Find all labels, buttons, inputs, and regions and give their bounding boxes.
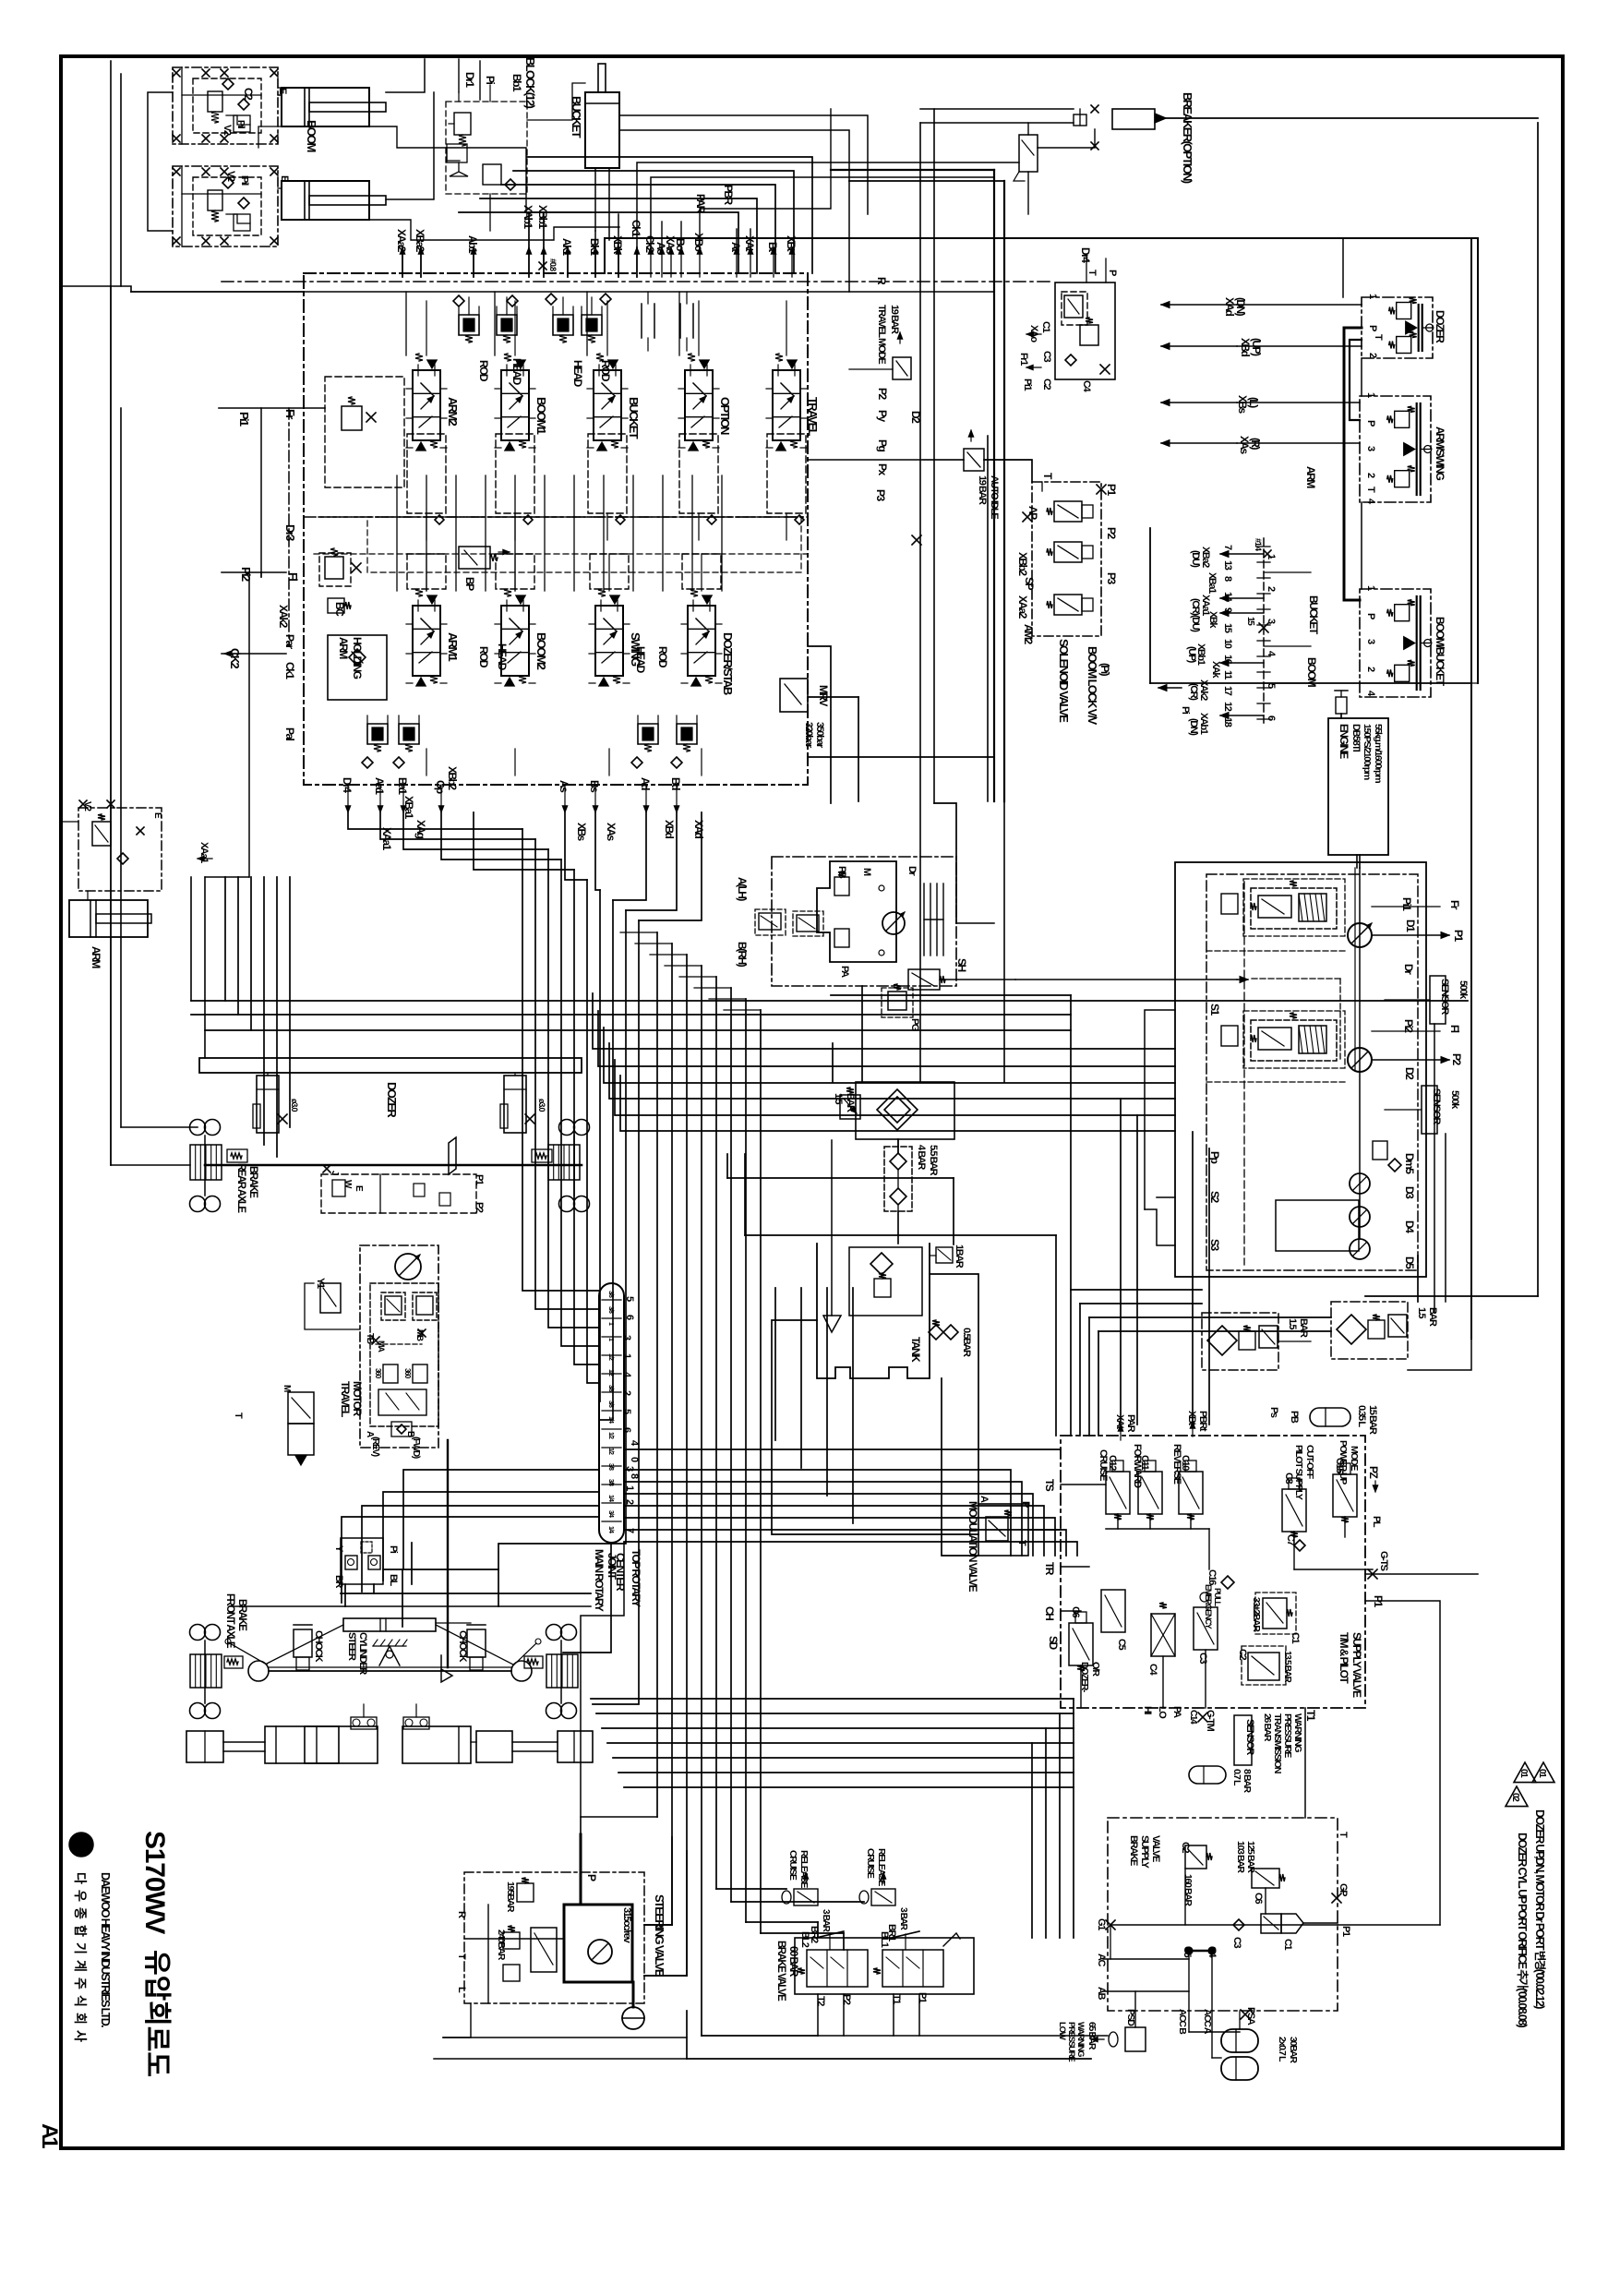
svg-text:12: 12 — [1222, 702, 1233, 712]
svg-text:3/4: 3/4 — [607, 1510, 614, 1518]
svg-text:G-TS: G-TS — [1378, 1551, 1389, 1571]
svg-text:GP: GP — [1338, 1883, 1349, 1896]
svg-text:CRUISE: CRUISE — [787, 1850, 798, 1881]
svg-text:19 BAR: 19 BAR — [977, 475, 988, 505]
svg-text:5.5 BAR: 5.5 BAR — [928, 1145, 939, 1176]
svg-text:IPil: IPil — [239, 175, 249, 186]
svg-text:XBb2: XBb2 — [446, 766, 459, 790]
svg-text:Y1: Y1 — [315, 1278, 326, 1289]
svg-text:Dr1: Dr1 — [463, 72, 476, 88]
svg-text:0.7 L: 0.7 L — [1231, 1769, 1242, 1786]
svg-text:T1: T1 — [891, 1994, 902, 2004]
svg-text:BLOCK(12): BLOCK(12) — [523, 57, 537, 108]
svg-text:D3: D3 — [1403, 1186, 1416, 1199]
svg-text:PRESSURE: PRESSURE — [1282, 1713, 1293, 1758]
svg-text:C2: C2 — [1180, 1842, 1191, 1854]
svg-text:320bar: 320bar — [803, 722, 814, 749]
svg-text:XAd: XAd — [1223, 297, 1236, 317]
svg-text:Dm5: Dm5 — [1403, 1153, 1416, 1174]
svg-text:1/4: 1/4 — [607, 1526, 614, 1533]
svg-text:S3: S3 — [1208, 1239, 1221, 1251]
svg-text:3 BAR: 3 BAR — [898, 1907, 908, 1931]
svg-text:TRAVEL MODE: TRAVEL MODE — [876, 305, 887, 364]
svg-text:CYLINDER: CYLINDER — [357, 1632, 368, 1675]
svg-text:XBs: XBs — [575, 823, 588, 842]
svg-text:Dr4: Dr4 — [341, 777, 354, 793]
svg-text:60 BAR: 60 BAR — [787, 1946, 798, 1977]
svg-text:BOOM: BOOM — [305, 120, 318, 152]
svg-text:P2: P2 — [841, 1994, 852, 2005]
svg-text:기: 기 — [73, 1942, 88, 1953]
svg-text:15 BAR: 15 BAR — [1367, 1405, 1378, 1435]
svg-text:LO: LO — [1157, 1706, 1168, 1719]
svg-text:Ck1: Ck1 — [283, 662, 296, 679]
svg-text:A(LH): A(LH) — [736, 877, 749, 901]
svg-text:REAR AXLE: REAR AXLE — [235, 1163, 246, 1213]
svg-text:195BAR: 195BAR — [505, 1881, 516, 1913]
svg-text:PILOT SUPPLY: PILOT SUPPLY — [1293, 1445, 1304, 1500]
svg-text:AB: AB — [1096, 1987, 1107, 2001]
svg-text:BOOM2: BOOM2 — [534, 632, 548, 670]
svg-text:Pp: Pp — [1208, 1151, 1221, 1163]
svg-text:P1: P1 — [1452, 930, 1465, 942]
svg-text:FRONT AXLE: FRONT AXLE — [224, 1593, 235, 1649]
svg-text:CUT-OFF: CUT-OFF — [1304, 1445, 1315, 1480]
svg-text:G-TM: G-TM — [1205, 1710, 1216, 1732]
svg-text:Py: Py — [876, 410, 889, 422]
svg-text:T1: T1 — [1304, 1710, 1317, 1722]
svg-text:P1: P1 — [474, 1174, 485, 1185]
svg-text:C6: C6 — [1070, 1606, 1081, 1618]
svg-text:D4: D4 — [1403, 1220, 1416, 1233]
svg-text:BUCKET: BUCKET — [1307, 595, 1320, 635]
svg-text:P2: P2 — [1450, 1053, 1463, 1065]
svg-text:HI: HI — [1142, 1706, 1153, 1715]
svg-text:다: 다 — [73, 1872, 88, 1884]
svg-text:BRAKE: BRAKE — [1128, 1835, 1139, 1866]
svg-text:STEER: STEER — [346, 1632, 357, 1661]
svg-text:MRV: MRV — [817, 685, 830, 706]
svg-text:(FWD): (FWD) — [411, 1437, 421, 1459]
svg-text:PBRt: PBRt — [1197, 1411, 1208, 1432]
svg-text:사: 사 — [73, 2030, 88, 2042]
svg-text:MODULATION VALVE: MODULATION VALVE — [966, 1501, 979, 1593]
svg-text:S170WV: S170WV — [139, 1831, 170, 1934]
svg-text:As: As — [558, 780, 570, 793]
svg-text:BRAKE: BRAKE — [236, 1599, 247, 1631]
svg-text:13: 13 — [1222, 560, 1233, 571]
svg-text:S1: S1 — [1208, 1004, 1221, 1016]
svg-text:PZ: PZ — [1367, 1466, 1380, 1478]
svg-text:1/2: 1/2 — [607, 1448, 614, 1455]
svg-text:ø3.0: ø3.0 — [537, 1099, 546, 1112]
svg-text:10: 10 — [1222, 639, 1233, 649]
svg-text:XBa1: XBa1 — [1206, 572, 1218, 594]
svg-text:P3: P3 — [1105, 572, 1118, 584]
svg-text:B(RH): B(RH) — [736, 942, 749, 968]
svg-text:Fr1: Fr1 — [1018, 353, 1029, 366]
svg-text:BUCKET: BUCKET — [570, 96, 583, 138]
svg-text:BUCKET: BUCKET — [627, 397, 641, 439]
svg-text:XAk: XAk — [1210, 661, 1221, 679]
svg-text:C3: C3 — [1231, 1937, 1242, 1949]
svg-text:C3: C3 — [1197, 1653, 1208, 1665]
svg-text:XBd: XBd — [663, 820, 676, 839]
svg-text:MOTOR: MOTOR — [351, 1381, 364, 1417]
svg-text:P1: P1 — [1105, 484, 1118, 496]
svg-text:P3: P3 — [874, 489, 887, 501]
svg-text:C16: C16 — [1206, 1569, 1218, 1585]
svg-text:0.5BAR: 0.5BAR — [961, 1328, 972, 1357]
svg-text:26 BAR: 26 BAR — [1262, 1713, 1273, 1742]
svg-text:XAb1: XAb1 — [522, 205, 534, 229]
svg-text:350bar: 350bar — [814, 722, 825, 749]
svg-text:CRUISE: CRUISE — [1098, 1449, 1109, 1481]
svg-text:BOOM/BUCKET: BOOM/BUCKET — [1434, 617, 1446, 687]
svg-text:(CR): (CR) — [1190, 598, 1201, 616]
svg-text:SUPPLY VALVE: SUPPLY VALVE — [1350, 1632, 1363, 1698]
svg-text:DAEWOO HEAVY INDUSTRIES LTD.: DAEWOO HEAVY INDUSTRIES LTD. — [99, 1872, 112, 2027]
svg-text:3/8: 3/8 — [607, 1463, 614, 1471]
svg-text:Ad: Ad — [639, 777, 652, 790]
svg-text:BAR: BAR — [845, 1093, 856, 1112]
svg-text:Pi: Pi — [484, 76, 497, 84]
svg-text:#0.8: #0.8 — [548, 258, 558, 271]
svg-text:J: J — [330, 1171, 340, 1175]
svg-text:(DN): (DN) — [1188, 718, 1199, 736]
svg-text:SD: SD — [1047, 1636, 1060, 1650]
svg-text:Gp: Gp — [434, 780, 447, 794]
svg-text:SP: SP — [1023, 577, 1036, 590]
svg-text:RELEASE: RELEASE — [798, 1850, 810, 1888]
svg-text:ENGINE: ENGINE — [1338, 724, 1350, 759]
svg-text:360: 360 — [374, 1368, 382, 1379]
svg-text:TOP ROTARY: TOP ROTARY — [630, 1549, 642, 1607]
svg-text:PBR: PBR — [722, 185, 735, 206]
svg-text:XBs: XBs — [1236, 395, 1249, 415]
svg-text:BOOM LOCK V/V: BOOM LOCK V/V — [1086, 646, 1099, 725]
svg-text:TANK: TANK — [909, 1337, 922, 1363]
svg-text:BL: BL — [388, 1574, 399, 1587]
svg-text:A1: A1 — [37, 2123, 62, 2148]
svg-text:1.5: 1.5 — [1416, 1307, 1427, 1318]
svg-text:D1: D1 — [1404, 920, 1417, 932]
svg-text:1BAR: 1BAR — [954, 1244, 965, 1268]
svg-text:PSD: PSD — [1125, 2009, 1136, 2026]
svg-text:XAs: XAs — [1238, 436, 1251, 455]
svg-text:TS: TS — [1043, 1479, 1056, 1492]
svg-text:3 BAR: 3 BAR — [821, 1909, 831, 1933]
svg-text:500k: 500k — [1449, 1090, 1460, 1110]
svg-text:P2: P2 — [1105, 527, 1118, 539]
svg-text:SENSOR: SENSOR — [1439, 979, 1450, 1015]
svg-text:ROD: ROD — [477, 646, 490, 668]
svg-text:XBd: XBd — [1239, 338, 1252, 357]
svg-text:P2: P2 — [474, 1202, 485, 1213]
svg-text:VALVE: VALVE — [1150, 1835, 1161, 1862]
svg-text:ACC A: ACC A — [1202, 2009, 1213, 2035]
svg-text:103 BAR: 103 BAR — [1235, 1841, 1246, 1873]
svg-text:Pi1: Pi1 — [1022, 379, 1033, 391]
svg-text:종: 종 — [73, 1907, 88, 1919]
svg-text:HEAD: HEAD — [510, 358, 523, 386]
svg-text:BAR: BAR — [1427, 1307, 1438, 1327]
svg-text:DOZER/STAB: DOZER/STAB — [721, 632, 735, 695]
svg-text:Fr: Fr — [283, 409, 297, 419]
svg-text:160 BAR: 160 BAR — [1182, 1874, 1194, 1906]
svg-text:WARNING: WARNING — [1075, 2022, 1086, 2057]
svg-text:55kg.m/1600rpm: 55kg.m/1600rpm — [1373, 724, 1384, 783]
svg-text:BREAKER(OPTION): BREAKER(OPTION) — [1181, 92, 1194, 184]
svg-text:C8: C8 — [1283, 1473, 1294, 1485]
svg-text:우: 우 — [73, 1890, 88, 1902]
svg-text:LOW: LOW — [1057, 2022, 1067, 2040]
svg-text:Pal: Pal — [283, 727, 296, 741]
svg-text:17: 17 — [1222, 686, 1233, 696]
svg-text:AC: AC — [1096, 1953, 1107, 1967]
svg-text:Dr4: Dr4 — [1079, 247, 1092, 263]
svg-text:SUPPLY: SUPPLY — [1139, 1835, 1150, 1869]
svg-text:PA: PA — [839, 966, 850, 978]
svg-text:BRAKE: BRAKE — [247, 1166, 258, 1198]
svg-text:ARM/SWING: ARM/SWING — [1434, 427, 1446, 481]
svg-text:BL1: BL1 — [879, 1931, 890, 1948]
svg-text:Pi2: Pi2 — [239, 567, 253, 582]
svg-text:Pi1: Pi1 — [1400, 897, 1413, 911]
svg-text:Bb1: Bb1 — [510, 74, 523, 92]
svg-text:(CR): (CR) — [1188, 683, 1199, 701]
svg-text:0.35 L: 0.35 L — [1356, 1405, 1367, 1427]
svg-text:500k: 500k — [1458, 980, 1469, 1000]
svg-text:AM2: AM2 — [1022, 624, 1035, 645]
svg-text:ROD: ROD — [477, 360, 490, 382]
svg-text:PA: PA — [1171, 1706, 1182, 1718]
svg-text:회: 회 — [73, 2013, 88, 2024]
svg-text:V2: V2 — [222, 125, 233, 136]
svg-text:Ps: Ps — [1268, 1407, 1279, 1418]
svg-text:#1.4: #1.4 — [1254, 538, 1263, 551]
svg-text:XAa2: XAa2 — [1016, 595, 1029, 619]
svg-text:CHOCK: CHOCK — [457, 1630, 468, 1663]
svg-text:C2: C2 — [242, 88, 255, 101]
svg-text:Ck1: Ck1 — [630, 220, 642, 237]
svg-text:M: M — [282, 1385, 292, 1392]
svg-text:ROD: ROD — [656, 646, 669, 668]
svg-text:19 BAR: 19 BAR — [889, 305, 900, 334]
svg-text:TR: TR — [1043, 1562, 1056, 1576]
svg-text:DOZER UP,DN, MOTOR Dr PORT 변경(: DOZER UP,DN, MOTOR Dr PORT 변경('00.02.12) — [1533, 1809, 1547, 2009]
svg-text:C6: C6 — [1253, 1893, 1264, 1905]
svg-text:PL: PL — [1371, 1516, 1382, 1528]
svg-text:Ba1: Ba1 — [396, 777, 409, 795]
svg-text:BOOM1: BOOM1 — [534, 397, 548, 435]
svg-text:13.5 BAR: 13.5 BAR — [1282, 1651, 1292, 1684]
svg-text:BP: BP — [463, 577, 476, 591]
svg-text:C2: C2 — [1041, 379, 1052, 391]
svg-text:C2: C2 — [1237, 1649, 1248, 1661]
svg-text:1/4: 1/4 — [607, 1495, 614, 1502]
svg-text:BRAKE VALVE: BRAKE VALVE — [775, 1941, 786, 2001]
svg-text:Bd: Bd — [669, 777, 682, 790]
svg-text:MAIN ROTARY: MAIN ROTARY — [593, 1549, 606, 1612]
svg-text:360: 360 — [403, 1368, 412, 1379]
svg-text:15: 15 — [1222, 623, 1233, 633]
svg-text:CRUISE: CRUISE — [865, 1848, 876, 1879]
svg-text:합: 합 — [73, 1925, 88, 1937]
svg-text:FORWARD: FORWARD — [1132, 1444, 1143, 1488]
svg-text:(DN): (DN) — [1234, 297, 1247, 317]
svg-text:D2: D2 — [1403, 1067, 1416, 1080]
svg-text:Dr3: Dr3 — [283, 524, 297, 541]
svg-text:(DU): (DU) — [1190, 615, 1201, 632]
svg-text:2x0.7 L: 2x0.7 L — [1277, 2037, 1288, 2062]
svg-text:11: 11 — [1222, 670, 1233, 679]
svg-text:ARM: ARM — [1304, 466, 1317, 488]
svg-text:주: 주 — [73, 1977, 88, 1989]
svg-text:XAd: XAd — [692, 820, 705, 839]
svg-text:XAk2: XAk2 — [277, 605, 290, 629]
svg-text:C1: C1 — [1282, 1939, 1293, 1951]
svg-text:HEAD: HEAD — [634, 646, 647, 674]
svg-text:Fl: Fl — [1448, 1025, 1461, 1033]
svg-text:DOZER: DOZER — [385, 1082, 399, 1118]
svg-text:TRAVEL: TRAVEL — [339, 1381, 352, 1417]
svg-text:POWER-UP: POWER-UP — [1338, 1440, 1349, 1485]
svg-text:SENSOR: SENSOR — [1431, 1088, 1442, 1124]
svg-text:(Pi): (Pi) — [1098, 663, 1111, 677]
svg-text:Aa1: Aa1 — [373, 777, 386, 795]
svg-text:MODE: MODE — [1349, 1446, 1360, 1471]
svg-text:PAR: PAR — [1125, 1414, 1136, 1433]
svg-text:BR: BR — [333, 1575, 344, 1589]
svg-text:XBb2: XBb2 — [1016, 552, 1029, 576]
svg-text:JOINT: JOINT — [606, 1553, 618, 1581]
svg-text:WARNING: WARNING — [1292, 1713, 1303, 1752]
svg-text:Px: Px — [876, 463, 889, 475]
svg-text:C3: C3 — [1041, 351, 1052, 363]
svg-text:유압회로도: 유압회로도 — [141, 1950, 172, 2077]
svg-text:33±2BAR: 33±2BAR — [1251, 1597, 1262, 1632]
svg-text:REVERSE: REVERSE — [1171, 1444, 1182, 1485]
svg-text:ARM: ARM — [337, 637, 350, 659]
svg-text:1/2: 1/2 — [607, 1432, 614, 1439]
svg-text:Pg: Pg — [876, 439, 889, 451]
svg-text:TRAVEL: TRAVEL — [806, 397, 820, 437]
svg-text:계: 계 — [73, 1960, 88, 1971]
svg-text:HEAD: HEAD — [571, 360, 584, 388]
svg-text:(DU): (DU) — [1190, 550, 1201, 568]
svg-text:STEERING VALVE: STEERING VALVE — [653, 1894, 666, 1977]
svg-text:HOLDING: HOLDING — [351, 637, 364, 679]
svg-text:T2: T2 — [815, 1996, 826, 2006]
svg-text:ARM: ARM — [90, 946, 102, 968]
svg-text:DOZER: DOZER — [1434, 310, 1446, 343]
svg-text:OPTION: OPTION — [718, 397, 732, 435]
svg-text:SH: SH — [955, 958, 968, 971]
svg-text:HEAD: HEAD — [496, 643, 509, 671]
svg-text:PRESSURE: PRESSURE — [1066, 2022, 1076, 2062]
svg-text:3/8: 3/8 — [607, 1479, 614, 1486]
svg-text:(UP): (UP) — [1250, 338, 1263, 356]
svg-text:P1: P1 — [917, 1992, 928, 2003]
svg-text:ROD: ROD — [599, 360, 612, 382]
svg-text:ARM1: ARM1 — [446, 632, 460, 662]
svg-text:V2: V2 — [225, 171, 236, 182]
svg-text:315cc/rev: 315cc/rev — [621, 1907, 632, 1944]
svg-text:O/R: O/R — [1090, 1662, 1101, 1677]
svg-text:1.5: 1.5 — [1287, 1318, 1298, 1329]
svg-text:PULL: PULL — [1213, 1588, 1222, 1606]
svg-text:(UP): (UP) — [1186, 646, 1197, 664]
svg-text:4 BAR: 4 BAR — [916, 1145, 927, 1170]
svg-text:XAa1: XAa1 — [198, 842, 210, 863]
svg-text:240BAR: 240BAR — [496, 1929, 507, 1961]
svg-text:T/M & PILOT: T/M & PILOT — [1338, 1632, 1350, 1684]
svg-text:ARM2: ARM2 — [446, 397, 460, 427]
svg-text:C14: C14 — [1188, 1710, 1198, 1725]
svg-text:SENSOR: SENSOR — [1244, 1719, 1255, 1755]
svg-text:(REV): (REV) — [370, 1437, 380, 1457]
svg-text:식: 식 — [73, 1995, 88, 2006]
svg-text:Pi1: Pi1 — [237, 412, 251, 427]
svg-text:30BAR: 30BAR — [1288, 2037, 1299, 2063]
svg-text:150PS/2100rpm: 150PS/2100rpm — [1362, 724, 1373, 780]
svg-text:C5: C5 — [1116, 1639, 1127, 1651]
svg-text:M: M — [861, 868, 872, 876]
svg-text:8 BAR: 8 BAR — [1242, 1769, 1253, 1793]
svg-text:PB: PB — [1289, 1411, 1300, 1424]
svg-text:XBb1: XBb1 — [536, 205, 549, 229]
svg-text:PB: PB — [836, 866, 847, 879]
svg-text:C1: C1 — [1040, 321, 1051, 333]
svg-text:P2: P2 — [876, 388, 889, 400]
svg-text:EMERGENCY: EMERGENCY — [1204, 1584, 1213, 1629]
svg-text:S2: S2 — [1208, 1191, 1221, 1203]
svg-text:Bs: Bs — [588, 780, 601, 793]
svg-text:SOLENOID VALVE: SOLENOID VALVE — [1057, 639, 1071, 723]
svg-text:BAR: BAR — [1298, 1318, 1309, 1338]
svg-text:D5: D5 — [1403, 1256, 1416, 1269]
svg-text:Par: Par — [283, 634, 296, 650]
svg-text:DB58TI: DB58TI — [1350, 724, 1362, 752]
svg-text:CH: CH — [1043, 1606, 1056, 1620]
svg-text:ø3.0: ø3.0 — [290, 1099, 299, 1112]
svg-text:PG: PG — [909, 1018, 920, 1031]
svg-text:RELEASE: RELEASE — [876, 1848, 887, 1886]
svg-text:P1: P1 — [1340, 1926, 1351, 1937]
svg-text:XBk: XBk — [1207, 611, 1218, 629]
svg-text:ACC B: ACC B — [1177, 2009, 1188, 2035]
svg-text:PAR: PAR — [694, 194, 707, 214]
svg-text:TRANSMISSION: TRANSMISSION — [1272, 1713, 1283, 1773]
svg-text:DOZER CYL. UP PORT ORIFICE 추가(: DOZER CYL. UP PORT ORIFICE 추가('00.08.08) — [1516, 1833, 1530, 2028]
svg-text:Fl: Fl — [286, 572, 300, 581]
svg-text:XAs: XAs — [605, 823, 618, 842]
